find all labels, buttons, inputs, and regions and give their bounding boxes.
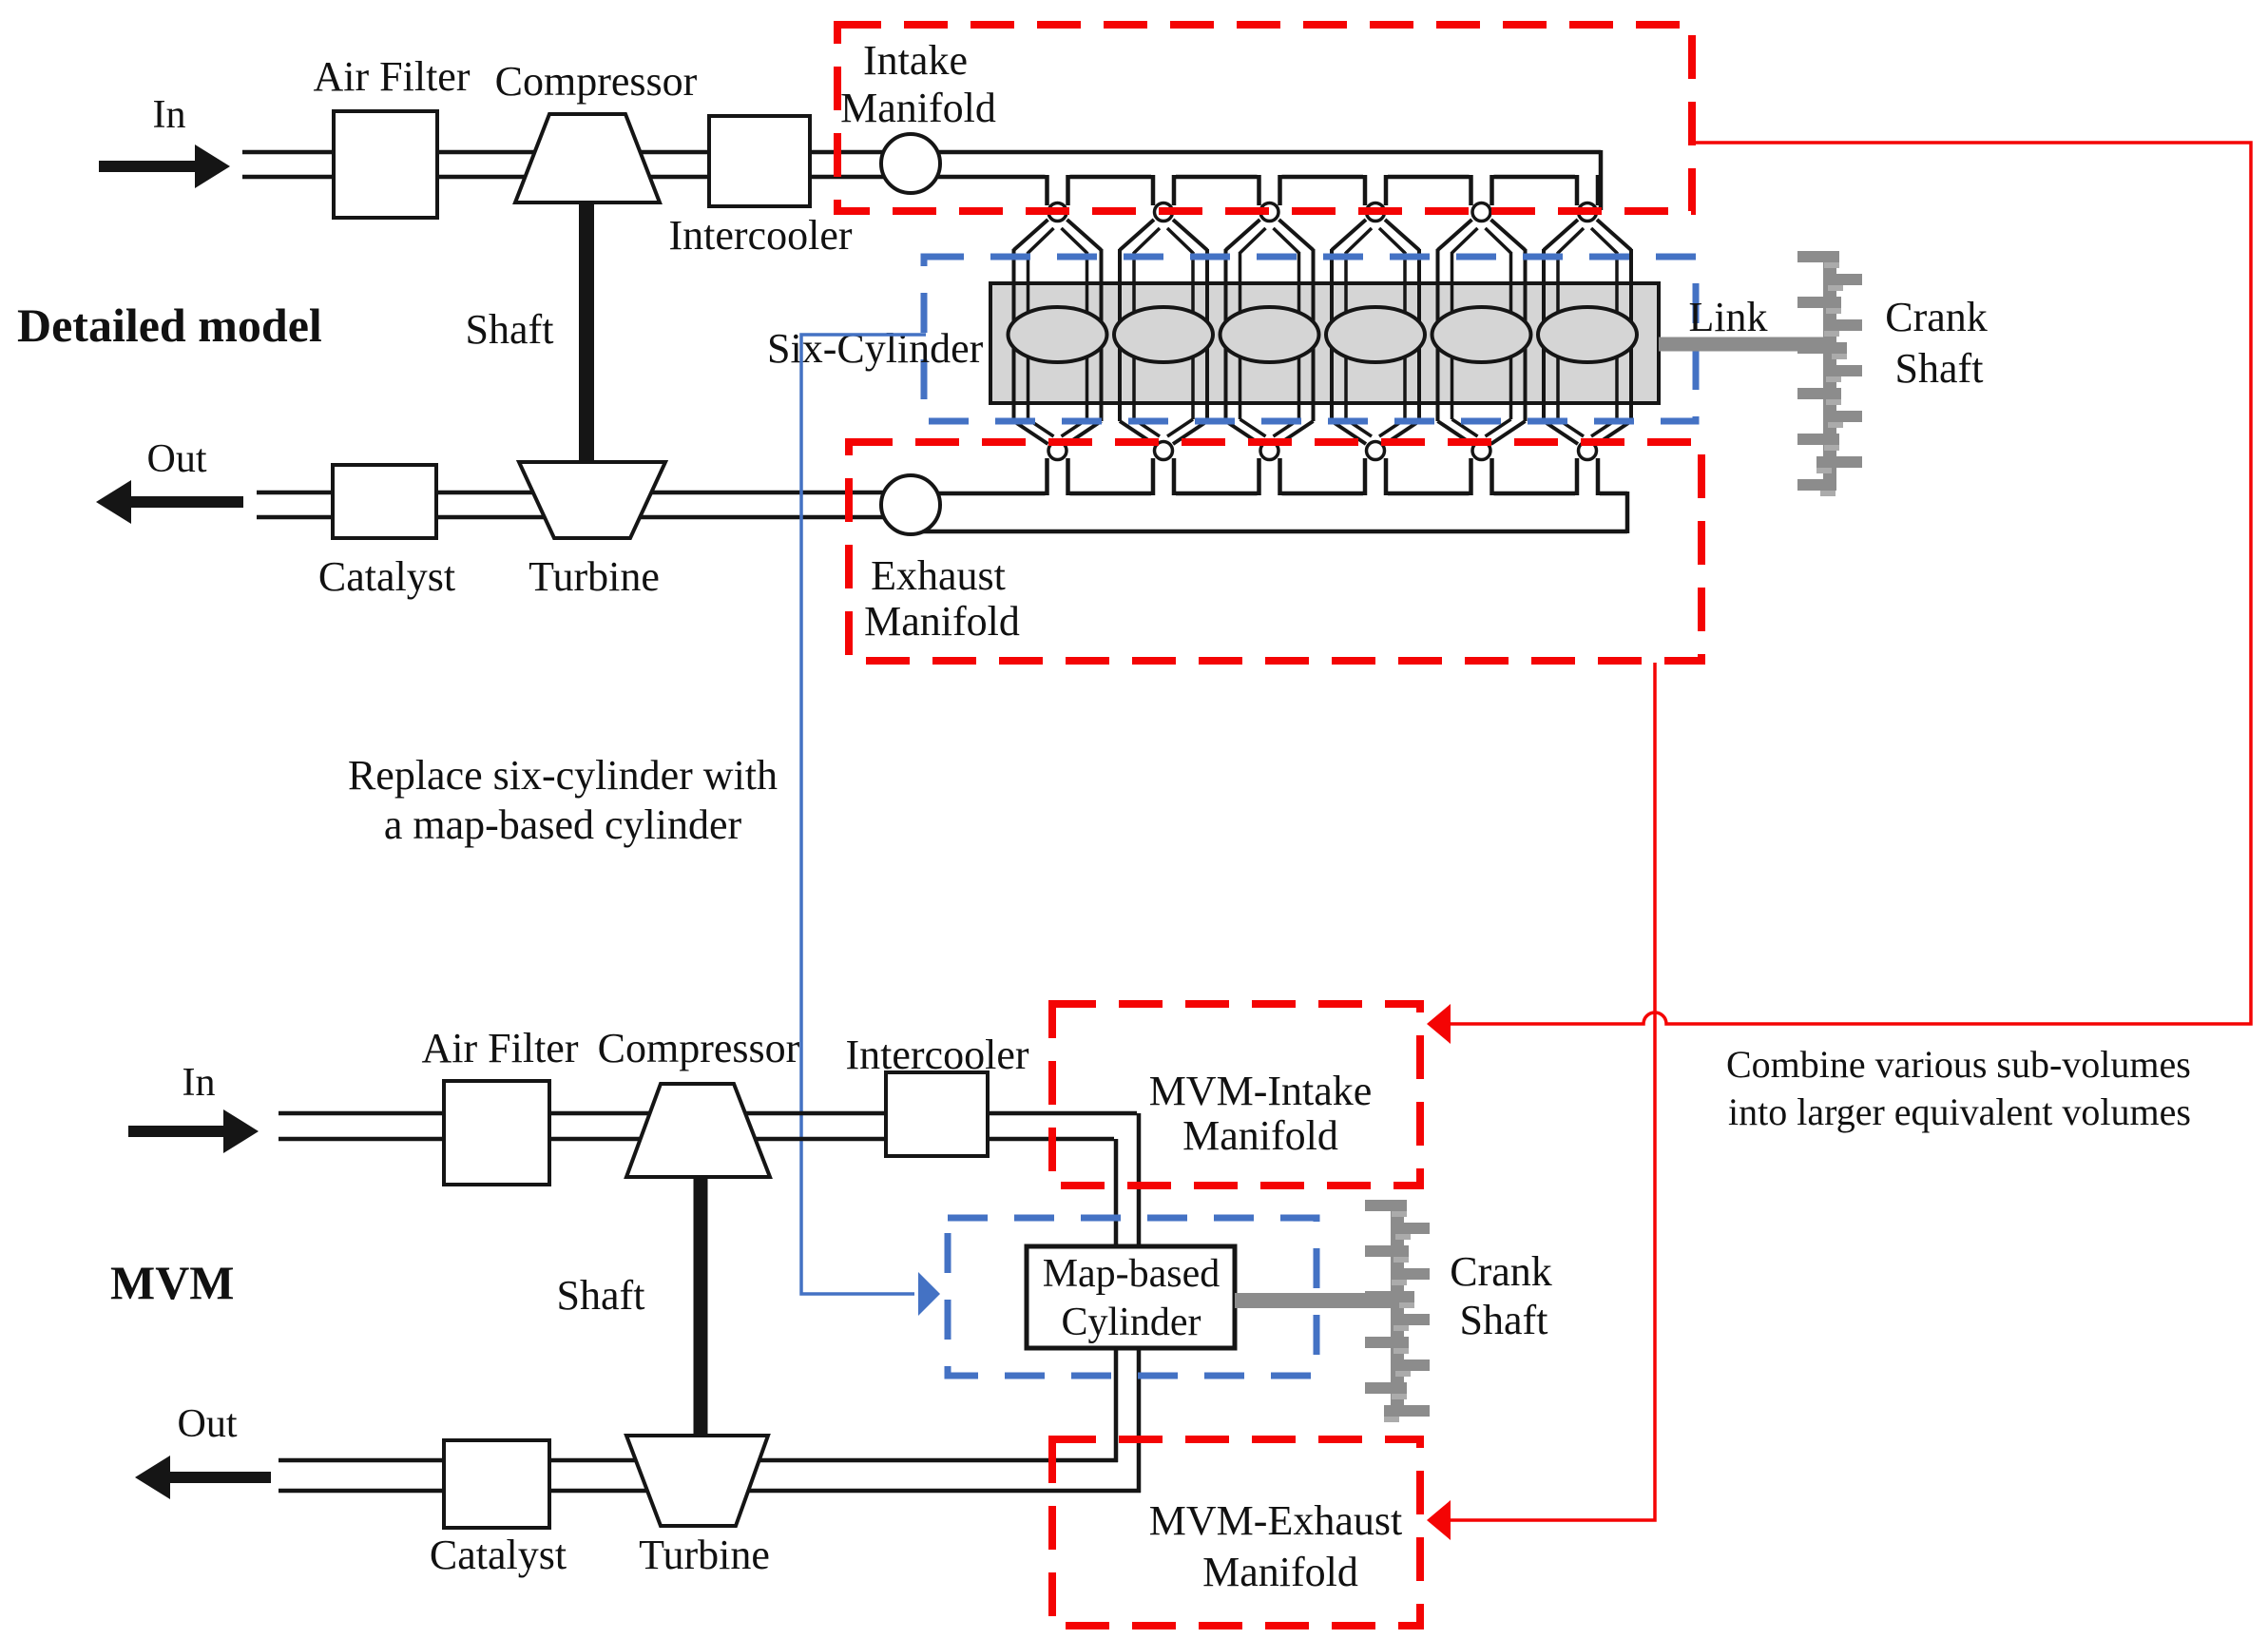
svg-text:Catalyst: Catalyst [430,1532,567,1578]
svg-text:MVM: MVM [110,1256,235,1309]
svg-text:Crank: Crank [1450,1248,1552,1295]
svg-text:Crank: Crank [1885,294,1988,340]
wire: detailed outlet upper line [257,491,908,495]
svg-text:Manifold: Manifold [840,85,996,131]
Turbine symbol (MVM) [626,1436,768,1526]
Catalyst box (MVM) [444,1440,549,1528]
svg-text:Shaft: Shaft [1895,345,1984,392]
Out arrow (MVM outlet) [135,1456,271,1499]
wire: MVM inlet lower line [279,1137,1114,1142]
link bar (cylinder to crank shaft) [1659,337,1823,352]
six-cylinder engine block band [990,283,1659,403]
wire: detailed inlet lower line [242,175,908,180]
svg-text:In: In [153,93,186,137]
svg-text:Manifold: Manifold [864,598,1020,645]
In arrow (detailed model inlet) [99,145,230,188]
Exhaust Manifold red dashed box [849,442,1701,661]
cylinder 1 with intake/exhaust runners [1009,175,1107,495]
svg-text:Exhaust: Exhaust [871,552,1006,599]
svg-text:Manifold: Manifold [1202,1549,1358,1595]
exhaust manifold junction circle [881,475,940,534]
red connector B (exhaust to MVM-exhaust) [1437,663,1655,1520]
shaft (detailed, compressor-turbine) [579,202,594,463]
In arrow (MVM inlet) [128,1109,259,1153]
MVM-Exhaust Manifold red dashed box [1052,1439,1420,1626]
svg-text:Air Filter: Air Filter [314,53,471,100]
wire: exhaust rail lower [908,530,1627,534]
svg-text:Intercooler: Intercooler [669,212,853,259]
svg-text:Detailed model: Detailed model [17,299,322,352]
svg-text:Compressor: Compressor [495,58,698,105]
svg-text:Catalyst: Catalyst [318,553,455,600]
cylinder 3 with intake/exhaust runners [1220,175,1319,495]
map-based cylinder blue dashed box [948,1218,1317,1376]
Intercooler box (MVM) [886,1072,988,1156]
svg-text:into larger equivalent volumes: into larger equivalent volumes [1728,1090,2191,1133]
wire: intake rail lower (with runner gaps) [908,175,1601,180]
Compressor symbol (MVM) [626,1084,770,1177]
svg-text:Shaft: Shaft [557,1272,645,1319]
svg-text:Intercooler: Intercooler [846,1032,1029,1078]
Air Filter box (MVM) [444,1081,549,1185]
blue connector arrowhead [918,1272,940,1316]
cylinder 6 with intake/exhaust runners [1538,175,1637,495]
svg-text:Compressor: Compressor [598,1025,800,1071]
wire: exhaust rail right riser [1625,492,1630,533]
svg-text:a map-based cylinder: a map-based cylinder [384,801,742,848]
svg-text:Manifold: Manifold [1182,1112,1338,1159]
svg-text:MVM-Exhaust: MVM-Exhaust [1149,1497,1402,1544]
Air Filter box (detailed) [334,111,437,218]
MVM-Intake Manifold red dashed box [1052,1004,1420,1186]
Intercooler box (detailed) [709,116,810,206]
cylinder 5 with intake/exhaust runners [1432,175,1531,495]
svg-text:Shaft: Shaft [466,306,554,353]
Catalyst box (detailed) [333,465,436,538]
Compressor symbol (detailed) [515,114,660,202]
wire: intake rail right drop [1599,150,1604,210]
red connector B arrowhead [1427,1500,1451,1540]
wire: MVM outlet upper line [279,1458,1118,1463]
wire: MVM exhaust riser inner [1114,1345,1119,1462]
Out arrow (detailed model outlet) [96,480,243,524]
wire: MVM intake drop inner [1114,1139,1119,1250]
svg-text:In: In [183,1061,216,1105]
wire: intake rail top (to far right) [908,150,1601,155]
svg-text:Out: Out [147,437,207,481]
svg-text:Cylinder: Cylinder [1062,1301,1201,1344]
Turbine symbol (detailed) [519,462,665,538]
wire: detailed outlet lower line [257,515,908,520]
red connector A arrowhead [1427,1004,1451,1044]
svg-text:Six-Cylinder: Six-Cylinder [767,325,984,372]
intake manifold junction circle [881,134,940,193]
svg-text:Shaft: Shaft [1460,1297,1548,1343]
blue connector line (six-cylinder to map-based) [801,335,926,1294]
Map-based Cylinder box [1027,1246,1235,1348]
red connector A (intake to MVM-intake) [1437,143,2251,1024]
shaft (MVM, compressor-turbine) [694,1177,708,1437]
wire: detailed inlet upper line [242,150,908,155]
wire: MVM inlet upper line [279,1111,1137,1116]
wire: MVM outlet lower line [279,1489,1141,1494]
wire: MVM exhaust riser outer [1137,1345,1142,1493]
Intake Manifold red dashed box [837,25,1692,211]
svg-text:MVM-Intake: MVM-Intake [1149,1068,1373,1114]
svg-text:Map-based: Map-based [1043,1252,1220,1296]
svg-text:Air Filter: Air Filter [422,1025,579,1071]
svg-text:Out: Out [178,1402,238,1446]
wire: MVM intake drop outer [1137,1113,1142,1250]
crank shaft glyph (detailed) [1797,251,1862,496]
wire: exhaust rail upper (with runner gaps) [908,492,1627,496]
cylinder 2 with intake/exhaust runners [1114,175,1213,495]
svg-text:Turbine: Turbine [639,1532,770,1578]
svg-text:Turbine: Turbine [529,553,660,600]
cylinder 4 with intake/exhaust runners [1326,175,1425,495]
link bar (map-based cylinder to crank) [1235,1293,1392,1308]
svg-text:Link: Link [1688,294,1767,340]
Six-Cylinder blue dashed box [924,257,1696,421]
crank shaft glyph (MVM) [1365,1200,1430,1422]
svg-text:Replace six-cylinder with: Replace six-cylinder with [348,752,778,799]
svg-text:Intake: Intake [863,37,968,84]
svg-text:Combine various sub-volumes: Combine various sub-volumes [1726,1043,2191,1086]
